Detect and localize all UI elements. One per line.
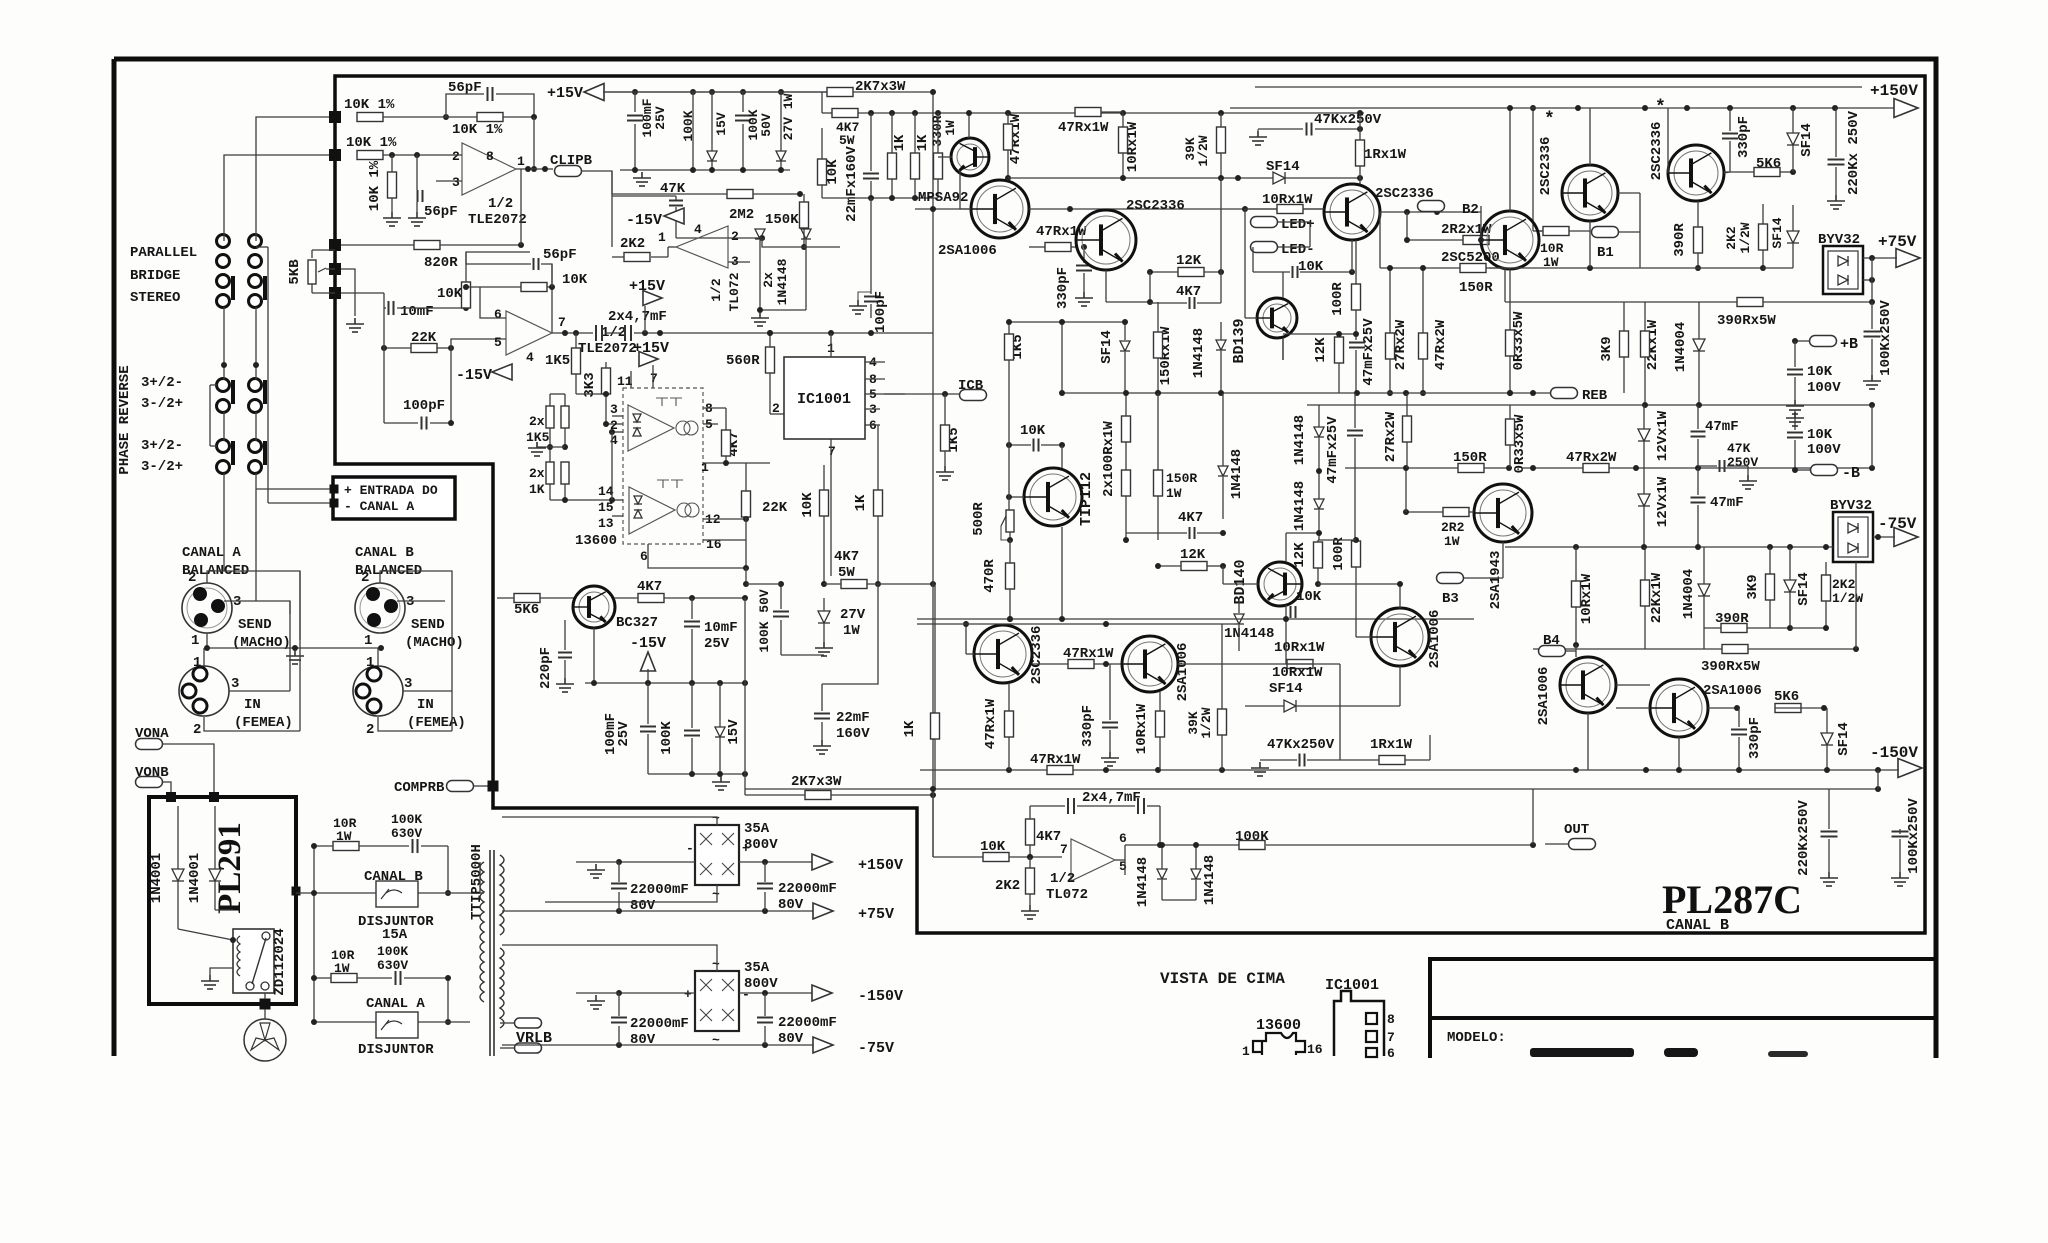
- wires 330pF vas mid: [1083, 247, 1085, 263]
- wires 10K servo: [1009, 856, 1062, 858]
- svg-text:50V: 50V: [757, 589, 772, 613]
- svg-text:100K: 100K: [391, 812, 422, 827]
- svg-text:1K: 1K: [915, 134, 931, 151]
- capacitor 10K (bd140): [1291, 606, 1296, 618]
- wires 10K vertical: [391, 155, 393, 172]
- net oval B2: [1418, 201, 1445, 212]
- junction COMPRB on thick bus: [488, 781, 499, 792]
- wires BYV32 lower: [1873, 536, 1895, 538]
- wires 5K6 low: [1708, 707, 1737, 709]
- svg-text:800V: 800V: [744, 837, 778, 853]
- wires canal A snubber: [314, 977, 331, 979]
- rail -150V: [920, 769, 1899, 771]
- PL291 output terminal square: [260, 999, 271, 1010]
- rail -15V bias: [585, 682, 745, 684]
- svg-text:7: 7: [1060, 842, 1068, 857]
- svg-text:2SC2336: 2SC2336: [1126, 198, 1185, 214]
- resistor 10K vertical (vas): [818, 159, 827, 185]
- wire +15V stub: [644, 306, 646, 333]
- ground 220pF: [556, 678, 574, 692]
- wire -15V arrow stem: [647, 669, 649, 683]
- wires 22K 13600: [745, 463, 747, 491]
- svg-text:TIP112: TIP112: [1078, 472, 1095, 526]
- capacitor 47Kx250V (top): [1307, 123, 1312, 136]
- svg-text:10K 1%: 10K 1%: [346, 135, 397, 151]
- svg-text:22000mF: 22000mF: [778, 881, 837, 897]
- diode 1N4004 (upper): [1693, 339, 1705, 351]
- transistor MPSA92: [951, 138, 989, 176]
- svg-text:2: 2: [452, 149, 460, 164]
- svg-text:STEREO: STEREO: [130, 290, 180, 306]
- relay coil: [237, 936, 240, 976]
- wire 13600 pin6: [648, 544, 746, 568]
- 13600 opamp A mirror circles: [676, 421, 690, 435]
- svg-text:2SC2336: 2SC2336: [1538, 137, 1554, 196]
- wires MPSA92: [968, 113, 970, 138]
- svg-text:100V: 100V: [1807, 380, 1841, 396]
- svg-text:IN: IN: [244, 697, 261, 713]
- ground 100K bottom: [1891, 872, 1909, 886]
- resistor 150R (driver): [1460, 264, 1486, 273]
- wires 100pF vas: [870, 198, 872, 294]
- wires 4K7 servo: [1029, 806, 1031, 819]
- wires VRLB winding: [500, 1022, 514, 1024]
- svg-text:1W: 1W: [1444, 534, 1460, 549]
- transistor 2SA1943: [1474, 484, 1532, 542]
- svg-text:10K: 10K: [1296, 589, 1322, 605]
- wires 56pF pin3: [416, 155, 418, 190]
- transistor 2SC2336 (driver mid): [1324, 184, 1380, 240]
- transistor 2SA1006 (low drv b): [1650, 679, 1708, 737]
- diode 2x 1N4148 (b): [801, 229, 811, 239]
- svg-text:800V: 800V: [744, 976, 778, 992]
- wire OUT: [1532, 789, 1534, 845]
- svg-text:2R2: 2R2: [1441, 520, 1465, 535]
- capacitor 10K (led): [1293, 266, 1298, 278]
- svg-text:630V: 630V: [391, 826, 422, 841]
- svg-text:+150V: +150V: [1870, 82, 1918, 100]
- svg-text:3: 3: [404, 676, 412, 692]
- wire VONB to PL291: [162, 782, 171, 797]
- svg-text:22000mF: 22000mF: [630, 882, 689, 898]
- fan symbol: [244, 1019, 286, 1061]
- svg-text:12K: 12K: [1313, 337, 1329, 363]
- mains bus vertical: [313, 846, 315, 1022]
- capacitor 10mF: [389, 301, 394, 315]
- resistor 12K vertical (bias gen): [1335, 337, 1344, 363]
- svg-text:1: 1: [191, 633, 199, 649]
- resistor 390Rx5W (upper): [1737, 298, 1763, 307]
- wires 47K 250V: [1698, 465, 1717, 467]
- relay ZD112024 box: [233, 929, 274, 993]
- wires 10mF bias: [691, 598, 693, 619]
- resistor 150Rx1W vertical: [1154, 332, 1163, 358]
- arrow -150V (psu): [812, 985, 832, 1001]
- svg-text:560R: 560R: [726, 353, 760, 369]
- ground 2x1K5: [528, 442, 546, 456]
- resistor 560R vertical: [766, 347, 775, 373]
- svg-text:22mF: 22mF: [836, 710, 870, 726]
- diode SF14 (mid): [1120, 341, 1130, 351]
- svg-text:47Rx1W: 47Rx1W: [983, 698, 999, 749]
- svg-text:1/2W: 1/2W: [1196, 135, 1211, 166]
- capacitor 22000mF 80V (bottom left): [611, 1018, 627, 1023]
- wires servo diode b: [1195, 845, 1197, 869]
- wires BD140: [1222, 566, 1224, 584]
- svg-text:8: 8: [486, 149, 494, 164]
- wire switch columns down to XLR section: [223, 307, 225, 380]
- svg-text:1Rx1W: 1Rx1W: [1364, 147, 1407, 163]
- rail bias bottom: [648, 773, 745, 775]
- svg-text:1: 1: [701, 460, 709, 475]
- wires low drivers: [1575, 645, 1577, 657]
- transformer secondary winding upper: [500, 855, 504, 935]
- capacitor 47K clip: [669, 201, 683, 206]
- wires 560R: [769, 333, 771, 347]
- wires 27Rx2W upper pair: [1389, 268, 1391, 333]
- transistor BC327: [573, 586, 615, 628]
- diode 1N4148 (mid b): [1218, 466, 1228, 476]
- wires ICB: [905, 393, 960, 395]
- ground 2K2 servo: [1021, 905, 1039, 919]
- resistor 1K vertical (low mid): [931, 713, 940, 739]
- capacitor 100K 50V (mid): [773, 612, 789, 617]
- wire transformer tap to bottom bridge: [502, 945, 717, 971]
- svg-text:TLE2072: TLE2072: [468, 212, 527, 228]
- ground bottom bridge: [587, 995, 605, 1009]
- wire VONA to PL291: [162, 744, 214, 797]
- capacitor 22mF 160V: [814, 714, 830, 719]
- wires SF14 lower: [1789, 547, 1791, 580]
- svg-text:5: 5: [494, 335, 502, 350]
- IC1001 package (vista): [1334, 991, 1384, 1056]
- svg-text:+B: +B: [1840, 336, 1858, 353]
- wire to ENTRADA box: [256, 488, 333, 490]
- wire -75V rail: [502, 1044, 813, 1046]
- svg-text:1K5: 1K5: [526, 430, 550, 445]
- wires 220K bottom: [1828, 789, 1830, 829]
- resistors 2x1K5 vertical pair: [546, 406, 554, 428]
- 13600 opamp B mirror circles: [677, 503, 691, 517]
- wire mid node to 22mF: [822, 584, 878, 684]
- wire XLR ground bus pin1: [206, 633, 208, 648]
- resistor 5K6 (bc327): [514, 594, 540, 603]
- svg-text:6: 6: [1387, 1046, 1395, 1061]
- svg-text:4K7: 4K7: [1036, 829, 1061, 845]
- wire row1 to opamp: [443, 114, 449, 120]
- resistor 1Rx1W (bottom): [1379, 756, 1405, 765]
- svg-text:PHASE REVERSE: PHASE REVERSE: [117, 365, 133, 474]
- svg-text:1N4148: 1N4148: [1224, 626, 1274, 642]
- svg-text:1/2W: 1/2W: [1199, 707, 1214, 738]
- svg-text:2x4,7mF: 2x4,7mF: [608, 309, 667, 325]
- wires 0R33 upper: [1509, 302, 1511, 330]
- diode 1N4004 (lower): [1698, 584, 1710, 596]
- wires regulator cluster verticals: [634, 92, 636, 112]
- wire pre-driver verticals: [1105, 270, 1107, 302]
- zener 12Vx1W (a): [1638, 429, 1650, 441]
- svg-text:6: 6: [640, 549, 648, 564]
- resistor 390R vertical: [1694, 227, 1703, 253]
- svg-text:~: ~: [712, 957, 720, 972]
- wires servo diode a: [1161, 845, 1163, 869]
- wire 820R feedback to opamp1 node: [520, 169, 522, 245]
- transistor BD139: [1257, 298, 1297, 338]
- svg-text:1/2: 1/2: [488, 196, 513, 212]
- svg-text:~: ~: [712, 887, 720, 902]
- capacitor 10K (tip): [1034, 439, 1039, 452]
- svg-text:10K 1%: 10K 1%: [452, 122, 503, 138]
- op-amp TLE2072 #1: [462, 143, 516, 195]
- vertical supply bus x745: [744, 598, 746, 795]
- transistor 2SC5200: [1481, 211, 1539, 269]
- wire opamp1 inputs: [452, 154, 462, 156]
- wire 13600 to comp bus links: [745, 568, 747, 584]
- bridge rectifier 35A 800V (bottom): [695, 971, 739, 1031]
- wire 10mF down: [383, 308, 385, 348]
- zener 27V 1W (top): [776, 151, 786, 161]
- svg-text:2x4,7mF: 2x4,7mF: [1082, 790, 1141, 806]
- wire ICB rail to left: [884, 393, 905, 395]
- arrow -15V up (bias): [641, 652, 656, 671]
- svg-text:3: 3: [231, 676, 239, 692]
- svg-text:1: 1: [1242, 1044, 1250, 1059]
- svg-text:27V: 27V: [840, 607, 866, 623]
- wires 10Rx1W low: [1285, 619, 1287, 664]
- svg-text:1/2W: 1/2W: [1738, 222, 1753, 253]
- capacitor 47mF (a): [1691, 432, 1706, 437]
- svg-text:220Kx250V: 220Kx250V: [1796, 800, 1812, 876]
- wires SF14 bottom mid: [1245, 705, 1284, 707]
- resistor 5K6 (low): [1775, 704, 1801, 713]
- svg-text:47K: 47K: [1727, 441, 1751, 456]
- svg-text:35A: 35A: [744, 821, 770, 837]
- resistor 4K7 vertical (servo): [1026, 819, 1035, 845]
- wires 10Rx1W left: [1122, 113, 1124, 127]
- capacitor 4K7 (pre): [1190, 297, 1195, 309]
- wire bus tap to 10mF: [341, 292, 384, 294]
- diode 1N4148 (fb a): [1314, 427, 1324, 437]
- wire switch column B up to 10K resistor row 2: [224, 155, 335, 241]
- svg-text:1Rx1W: 1Rx1W: [1370, 737, 1413, 753]
- svg-text:BC327: BC327: [616, 615, 658, 631]
- svg-text:2: 2: [366, 722, 374, 738]
- svg-text:500R: 500R: [971, 502, 987, 536]
- svg-text:2K2: 2K2: [1832, 577, 1856, 592]
- wire led column: [1252, 247, 1254, 272]
- wire driver mid connections: [1379, 212, 1381, 240]
- svg-text:10Rx1W: 10Rx1W: [1274, 640, 1325, 656]
- svg-text:2K2: 2K2: [995, 878, 1020, 894]
- rail -75V mid: [1505, 546, 1833, 548]
- rail feedback y405: [1307, 404, 1872, 406]
- svg-text:TL072: TL072: [1046, 887, 1088, 903]
- svg-text:+75V: +75V: [858, 906, 894, 923]
- resistor 2R2 1W (mid): [1443, 508, 1469, 517]
- wires 5KB: [311, 250, 313, 258]
- wires 10K 100V lower: [1794, 410, 1796, 430]
- capacitor 220Kx250V (top): [1828, 160, 1845, 165]
- wire top bridge minus row: [619, 861, 695, 863]
- wires 10K ic: [823, 465, 825, 490]
- wires 10K tip: [1009, 444, 1031, 446]
- net oval CLIPB: [555, 166, 582, 177]
- svg-text:1N4001: 1N4001: [149, 853, 165, 903]
- svg-text:3K9: 3K9: [1745, 574, 1761, 599]
- wires 220pF: [564, 620, 566, 650]
- capacitor 220pF: [558, 653, 572, 658]
- svg-text:13600: 13600: [575, 533, 617, 549]
- svg-text:16: 16: [1307, 1042, 1323, 1057]
- svg-text:4K7: 4K7: [834, 549, 859, 565]
- svg-text:2x: 2x: [529, 414, 545, 429]
- wires 1K vas a: [891, 113, 893, 153]
- ground regulator cluster: [633, 172, 651, 186]
- wires 10Rx1W driver: [1245, 208, 1277, 210]
- svg-text:3: 3: [610, 402, 618, 417]
- diode SF14 (lower): [1784, 580, 1796, 592]
- resistor 1K vertical (vas a): [888, 153, 897, 179]
- svg-text:15A: 15A: [382, 927, 408, 943]
- wire opamp2 output: [552, 332, 593, 334]
- wire +B: [1795, 340, 1810, 342]
- svg-text:4K7: 4K7: [637, 579, 662, 595]
- wires 5K6 row: [497, 597, 514, 599]
- wires 4K7 13600: [725, 408, 727, 430]
- resistor 4K7 5W (rail): [832, 109, 858, 118]
- wires resistor pairs: [549, 394, 551, 406]
- rail +150V top: [1255, 86, 1862, 88]
- wire 10R 1W left feed: [1532, 108, 1534, 231]
- svg-text:SEND: SEND: [411, 617, 445, 633]
- svg-text:100Kx250V: 100Kx250V: [1878, 300, 1894, 376]
- transistor TIP112: [1024, 468, 1082, 526]
- svg-text:1N4148: 1N4148: [1135, 857, 1151, 907]
- svg-text:15V: 15V: [714, 112, 729, 136]
- svg-text:3-/2+: 3-/2+: [141, 396, 183, 412]
- resistor 27Rx2W vertical (upper pair): [1386, 333, 1395, 359]
- wire IC1001 pin1: [830, 333, 832, 357]
- op-amp TL072 #2 (servo): [1071, 839, 1115, 881]
- svg-text:6: 6: [1119, 831, 1127, 846]
- ground relay: [201, 975, 219, 989]
- inner frame CANAL B schematic boundary: [335, 76, 1925, 933]
- wires 47mF25: [1354, 393, 1356, 428]
- svg-text:1/2W: 1/2W: [1832, 591, 1863, 606]
- wire regulator bottom rail: [620, 169, 790, 171]
- svg-text:820R: 820R: [424, 255, 458, 271]
- svg-text:+15V: +15V: [547, 85, 583, 102]
- svg-text:1N4004: 1N4004: [1681, 569, 1697, 619]
- resistor 820R: [414, 241, 440, 250]
- ENTRADA DO CANAL A box: [333, 477, 455, 519]
- svg-text:1N4148: 1N4148: [1292, 481, 1308, 531]
- svg-text:PARALLEL: PARALLEL: [130, 245, 197, 261]
- ground bias bottom: [712, 776, 730, 790]
- wires fb a: [1318, 405, 1320, 427]
- ENTRADA box terminal squares: [330, 485, 339, 494]
- wires zener mid: [823, 598, 825, 611]
- title block partial large model text: [1530, 1048, 1634, 1057]
- svg-text:1N4004: 1N4004: [1673, 322, 1689, 372]
- diode SF14 (bottom right): [1821, 733, 1833, 745]
- resistor 2x100R (a): [1122, 416, 1131, 442]
- ground 47K 250V: [1739, 475, 1757, 489]
- svg-text:27Rx2W: 27Rx2W: [1393, 319, 1409, 370]
- wires 4K7 5W row: [824, 583, 841, 585]
- wire +150V output: [739, 861, 812, 863]
- svg-text:1N4001: 1N4001: [187, 853, 203, 903]
- net oval VRLB (1): [515, 1018, 542, 1028]
- transistor 2SC2336 (bottom): [974, 625, 1032, 683]
- capacitor 100Kx250V (bottom): [1892, 832, 1909, 837]
- svg-text:TL072: TL072: [727, 272, 742, 311]
- wires 1N4148 mid a: [1220, 322, 1222, 340]
- wire bias gen row y334: [1283, 333, 1356, 335]
- wire bc327 emitter: [593, 628, 595, 683]
- wire switch column A up to 10K resistor row 1: [256, 117, 335, 241]
- BYV32 rectifier (lower): [1833, 512, 1873, 562]
- resistor 0R33x5W vertical (lower): [1506, 419, 1515, 445]
- svg-text:TLE2072: TLE2072: [578, 341, 637, 357]
- svg-text:220Kx 250V: 220Kx 250V: [1846, 110, 1862, 195]
- wire bottom bridge plus row: [619, 992, 695, 994]
- 13600 opamp A input diodes: [633, 414, 641, 422]
- svg-text:100V: 100V: [1807, 442, 1841, 458]
- svg-text:VISTA DE CIMA: VISTA DE CIMA: [1160, 970, 1285, 988]
- svg-text:47mFx25V: 47mFx25V: [1325, 416, 1341, 484]
- diode 1N4148 (low): [1234, 614, 1244, 624]
- wire 2SC2336 outputs interconnect upper: [1618, 192, 1640, 194]
- wire top right 47R: [1101, 111, 1123, 113]
- arrow -150V (right): [1898, 759, 1922, 778]
- transformer core: [489, 850, 491, 1056]
- svg-text:-150V: -150V: [858, 988, 903, 1005]
- diode 1N4148 servo (a): [1157, 869, 1167, 879]
- wire bottom interconnect: [1339, 664, 1341, 706]
- net oval +B: [1810, 336, 1837, 347]
- resistor 3K9 vertical (upper): [1620, 331, 1629, 357]
- resistor 10Rx1W (low): [1287, 660, 1313, 669]
- wires 330pF out1: [1729, 108, 1731, 131]
- XLR connector CANAL A SEND (MACHO): [182, 583, 232, 633]
- rail output long: [745, 788, 1878, 790]
- wires 470R: [1009, 540, 1011, 563]
- wire +15V rail to right: [603, 91, 828, 93]
- resistor 47Rx2W (lower rail): [1583, 464, 1609, 473]
- svg-text:1K5: 1K5: [545, 353, 570, 369]
- resistor 10K vertical (ic): [820, 490, 829, 516]
- svg-text:12Vx1W: 12Vx1W: [1655, 410, 1671, 461]
- wires 1K low mid: [934, 584, 936, 713]
- wires 390R lower: [1704, 627, 1721, 629]
- capacitor 2x4,7mF (b): [625, 325, 631, 341]
- svg-text:330pF: 330pF: [1080, 705, 1096, 747]
- resistor 10R 1W (b1): [1543, 227, 1569, 236]
- ground ICB: [936, 466, 954, 480]
- svg-text:150R: 150R: [1166, 471, 1197, 486]
- resistor 100K (servo out): [1239, 841, 1265, 850]
- arrow +150V (right): [1894, 99, 1918, 118]
- rail mid y393: [1062, 392, 1307, 394]
- wire transformer tap to top bridge: [502, 817, 717, 825]
- svg-text:-150V: -150V: [1870, 744, 1918, 762]
- capacitor 100Kx250V (upper): [1864, 332, 1881, 337]
- svg-text:2SC2336: 2SC2336: [1375, 186, 1434, 202]
- PL291 box: [149, 797, 296, 1004]
- svg-text:10K: 10K: [562, 272, 588, 288]
- resistor 2K7x3W (bottom): [805, 791, 831, 800]
